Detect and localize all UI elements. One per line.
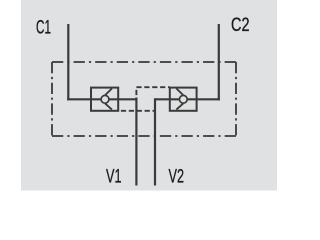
white page background bbox=[0, 0, 300, 200]
check valve CV2 seat bbox=[176, 89, 183, 110]
svg-text:C1: C1 bbox=[36, 17, 51, 39]
wire C1 to check valve CV1 (left port line) bbox=[67, 98, 136, 100]
check valve CV1 box bbox=[91, 88, 118, 111]
svg-text:C2: C2 bbox=[231, 14, 250, 36]
check valve CV2 ball bbox=[179, 95, 187, 103]
check valve CV1 ball bbox=[101, 95, 109, 103]
wire V1 drop line bbox=[135, 98, 137, 186]
gray schematic panel bbox=[21, 0, 277, 191]
svg-text:V2: V2 bbox=[169, 166, 185, 188]
valve body boundary bottom edge (dash-dot) bbox=[52, 135, 236, 137]
check valve CV2 box bbox=[170, 88, 197, 111]
wire C2 riser bbox=[218, 24, 220, 100]
pilot line from V1 to CV2 (dashed) bbox=[136, 87, 169, 99]
svg-text:V1: V1 bbox=[106, 166, 122, 188]
valve body boundary left edge (dash-dot) bbox=[51, 62, 53, 136]
wire V2 drop line bbox=[154, 98, 156, 185]
pilot line from V2 to CV1 (dashed) bbox=[119, 110, 155, 112]
wire V2 to check valve CV2 to C2 (right port line) bbox=[155, 98, 220, 100]
wire C1 riser bbox=[67, 24, 69, 100]
valve body boundary top edge (dash-dot) bbox=[52, 61, 236, 63]
check valve CV1 seat bbox=[105, 89, 112, 110]
valve body boundary right edge (dash-dot) bbox=[235, 62, 237, 136]
